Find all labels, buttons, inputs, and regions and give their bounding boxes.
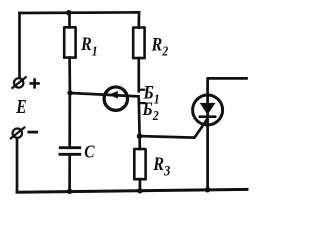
thyristor VS1 triangle (200, 103, 216, 115)
transistor U1 base-1 tick (139, 89, 145, 91)
wire top horizontal (20, 11, 140, 14)
junction node divider (137, 133, 143, 139)
terminal + (top left) (12, 77, 27, 89)
junction node emitter/R1/C (67, 90, 72, 95)
transistor U1 base-2 tick (139, 102, 145, 104)
resistor R2 (133, 28, 144, 92)
wire top-right corner down to R2 (137, 12, 140, 27)
transistor U1 circle (104, 87, 127, 110)
wire left vertical from top wire to + terminal (18, 13, 21, 78)
junction node thyristor cathode (205, 187, 211, 193)
wire emitter from R1/C junction to transistor (70, 93, 139, 96)
thyristor VS1 cathode bar (199, 115, 217, 118)
plus sign (30, 78, 40, 88)
wire thyristor cathode vertical (206, 95, 209, 191)
junction node R1 top (66, 10, 71, 15)
resistor R3 (134, 136, 145, 191)
junction node C bottom (67, 189, 72, 194)
minus sign (28, 131, 39, 134)
wire bottom-left vertical from - terminal (16, 138, 19, 192)
junction node R3 bottom (137, 188, 143, 194)
svg-text:C: C (84, 141, 95, 161)
resistor R1 (64, 13, 75, 93)
wire gate from divider junction to thyristor (140, 120, 207, 138)
wire thyristor top to right edge (208, 78, 247, 95)
thyristor VS1 circle (193, 95, 223, 125)
terminal - (bottom left) (10, 127, 25, 139)
svg-text:E: E (15, 95, 26, 117)
capacitor C (60, 93, 80, 191)
transistor U1 emitter arrow (109, 91, 118, 99)
wire base-2 vertical below emitter (137, 99, 141, 136)
wire bottom horizontal (17, 189, 247, 192)
